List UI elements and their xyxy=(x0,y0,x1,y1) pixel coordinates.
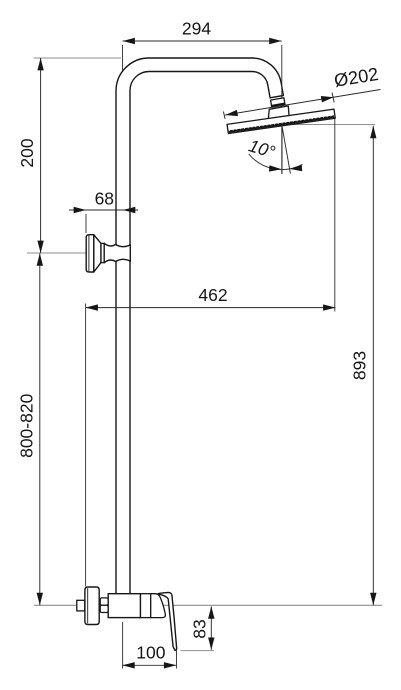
svg-text:800-820: 800-820 xyxy=(16,393,36,457)
svg-text:68: 68 xyxy=(95,189,114,209)
svg-text:200: 200 xyxy=(17,138,37,167)
svg-text:100: 100 xyxy=(136,642,165,662)
svg-text:462: 462 xyxy=(198,285,227,305)
svg-text:Ø202: Ø202 xyxy=(333,64,380,91)
svg-text:10°: 10° xyxy=(246,135,277,162)
svg-text:294: 294 xyxy=(182,19,211,39)
svg-text:83: 83 xyxy=(189,619,209,638)
svg-text:893: 893 xyxy=(350,351,370,380)
